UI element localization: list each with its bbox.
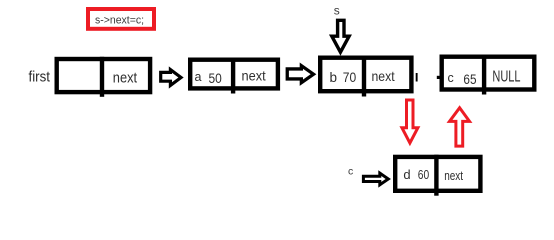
svg-text:next: next [113,70,137,86]
pointer arrow s down to node b [332,20,349,52]
svg-text:70: 70 [343,69,357,85]
svg-text:next: next [444,169,463,183]
node b box [320,58,411,91]
svg-text:60: 60 [418,167,429,182]
svg-text:65: 65 [463,71,476,87]
node a divider [231,58,235,94]
svg-text:b: b [330,70,338,85]
node c divider [482,55,486,95]
arrow a to b [287,66,313,83]
erased link mark left of node c [437,76,440,79]
pointer arrow c to node d [363,173,388,185]
red arrow d.next up to node c [450,108,470,146]
arrow first to a [161,70,181,86]
red arrow b.next down to node d [402,100,418,143]
svg-text:c: c [348,166,353,178]
node b divider [362,56,366,97]
erased link mark right of node b [416,73,418,82]
node d box [395,157,480,191]
svg-text:a: a [195,70,202,84]
svg-text:d: d [403,167,410,182]
node first divider [100,57,104,97]
svg-text:s: s [334,3,340,17]
node first box [57,59,150,92]
svg-text:s->next=c;: s->next=c; [95,14,144,26]
svg-text:NULL: NULL [492,68,520,85]
svg-text:next: next [242,68,266,84]
svg-text:first: first [29,69,51,86]
node a box [190,60,278,89]
svg-text:next: next [372,68,395,84]
node d divider [434,155,438,196]
red callout box [88,9,154,29]
svg-text:c: c [448,71,454,85]
node c box [442,57,535,90]
svg-text:50: 50 [209,70,222,86]
